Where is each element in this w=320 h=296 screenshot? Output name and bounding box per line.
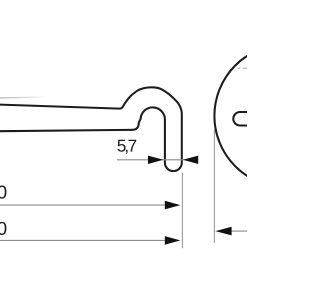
dimension 5,7 line (117, 159, 198, 161)
label 0 (dim 2, cut off) (0, 222, 6, 235)
hook side view outline (0, 87, 182, 171)
label 5,7 (117, 140, 136, 154)
front view big circle (mostly off-canvas) (214, 45, 320, 188)
extension line from circle left edge (213, 129, 215, 243)
faint top-left line (0, 97, 48, 98)
extension line from strip right edge (181, 173, 183, 249)
faint dashed centerline near top-right (238, 67, 241, 69)
arrow left of 5,7 (148, 156, 163, 164)
slot in front view (233, 112, 273, 126)
label 0 (dim 1, cut off) (0, 186, 6, 199)
arrow right of 5,7 (183, 156, 198, 164)
faint dash near bottom-right of circle (242, 169, 247, 171)
dimension line 2 (0, 239, 165, 241)
dimension line 3 (from right edge) (231, 230, 247, 232)
dimension line 1 (0, 204, 165, 206)
